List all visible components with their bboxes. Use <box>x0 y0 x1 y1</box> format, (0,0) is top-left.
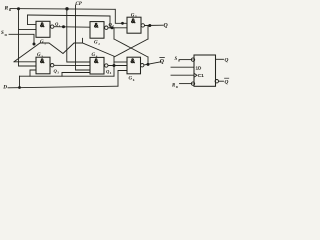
wire lower rail drop at x21 <box>19 76 21 87</box>
node RD-CP-column junction <box>65 7 68 10</box>
pin SD wire <box>180 59 193 61</box>
label G4 <box>92 53 98 58</box>
svg-text:C1: C1 <box>198 73 204 78</box>
wire D bottom rail <box>8 86 118 88</box>
wire RD top rail <box>10 8 115 11</box>
gate G1 AND mark <box>40 23 45 29</box>
gate G5 box <box>127 17 141 33</box>
wire cross vertical left lower with G6 input stub <box>113 57 115 76</box>
svg-text:R: R <box>4 6 9 12</box>
wire feedback rail y15 <box>28 15 111 16</box>
node on G1 output wire <box>62 25 65 28</box>
pin SD: label <box>175 57 182 62</box>
pin Qbar bubble <box>215 80 218 83</box>
wire CP vertical down to gate G4 input c <box>76 5 91 70</box>
gate G3 box <box>36 57 50 74</box>
gate G2 output bubble <box>105 26 108 29</box>
node on bottom D wire <box>18 86 21 89</box>
gate G5 AND mark <box>131 19 136 25</box>
wire y15 rail corner down joining G2 output wire <box>109 16 111 28</box>
label Q1 <box>55 22 61 28</box>
label CP <box>76 2 83 7</box>
pin RD bubble <box>191 82 194 85</box>
wire D rail up to G6 input c <box>118 71 127 87</box>
wire cross vertical right lower <box>147 57 149 65</box>
node Qbar junction <box>147 63 150 66</box>
svg-text:&: & <box>131 59 136 65</box>
gate G4 AND mark <box>94 59 99 65</box>
wire G4 stub vertical <box>61 73 63 77</box>
pin Qbar wire <box>219 80 224 82</box>
pin Q wire <box>216 58 224 60</box>
node G2 out junction <box>111 26 114 29</box>
wire V1 vertical from RD down to gate G3 input <box>19 9 37 66</box>
wire G1 output to G2 input <box>54 26 90 29</box>
wire G3 output to G4 input <box>54 64 90 66</box>
wire cross vertical right upper <box>147 26 149 40</box>
label G3 <box>37 53 43 58</box>
pin RD label <box>172 84 179 89</box>
node Q junction <box>148 24 151 27</box>
svg-text:Q: Q <box>225 58 229 64</box>
wire G6 input stub y62 <box>114 61 127 63</box>
svg-text:Q: Q <box>225 80 229 86</box>
gate G3 output bubble <box>51 63 54 66</box>
gate G3 AND mark <box>40 59 45 65</box>
svg-text:&: & <box>40 23 45 29</box>
label G2 <box>94 41 100 46</box>
label Q2 <box>109 22 115 28</box>
node blob on G5 input <box>121 22 124 25</box>
pin Qbar label <box>225 78 229 85</box>
pin C1 dynamic triangle <box>194 73 197 77</box>
wire G4 input d stub <box>62 72 90 74</box>
label D input <box>2 85 7 91</box>
wire corner down to gate G1 input a <box>28 15 37 25</box>
label G6 <box>129 77 135 82</box>
wire branch V1 to gate G1 input b <box>19 29 36 31</box>
wire G3 input c from lower rail <box>30 70 36 76</box>
wire G5 output to Q <box>145 24 164 26</box>
pin SD bubble <box>191 58 194 61</box>
pin RD wire <box>180 83 193 85</box>
wire G4 output to G6 input <box>108 65 127 67</box>
gate G1 output bubble <box>51 25 54 28</box>
wire A2 bottom stub <box>82 38 84 43</box>
zigzag feedback wire B2out to B1in <box>14 43 114 62</box>
pin 1D wire <box>171 66 194 68</box>
wire G2 output to G5 input b <box>108 27 127 29</box>
gate G4 output bubble <box>105 64 108 67</box>
gate G2 box <box>90 22 104 39</box>
gate G2 AND mark <box>94 23 99 29</box>
svg-text:CP: CP <box>76 2 83 7</box>
pin C1 label <box>198 73 204 78</box>
svg-text:&: & <box>40 59 45 65</box>
svg-text:1D: 1D <box>196 65 203 70</box>
gate G5 output bubble <box>141 24 144 27</box>
wire RD rail corner down to gate G5 input a <box>115 9 127 23</box>
wire G6 output to Qbar <box>144 62 161 65</box>
gate G6 AND mark <box>131 59 136 65</box>
label Q output <box>164 23 169 29</box>
gate G4 box <box>90 57 104 74</box>
node G4 out cross junction <box>113 64 116 67</box>
gate G1 box <box>36 21 50 37</box>
label G5 <box>131 13 137 18</box>
pin C1 wire <box>171 74 194 76</box>
wire cross vertical left upper <box>113 28 115 39</box>
label Qbar output <box>160 58 165 66</box>
gate G6 box <box>127 57 141 74</box>
wire B1 input a <box>14 61 36 63</box>
wire SD input <box>9 34 34 45</box>
label Q4 <box>106 69 112 75</box>
wire cross diagonal B <box>114 39 148 57</box>
svg-text:&: & <box>131 19 136 25</box>
label G1 <box>40 40 46 45</box>
wire lower rail y76 <box>20 75 115 77</box>
node RD-V1 junction <box>17 7 20 10</box>
wire cross diagonal A <box>114 39 148 57</box>
gate G6 output bubble <box>141 63 144 66</box>
pin Q label <box>225 58 229 64</box>
wire vertical x67 down to gate G4 input a <box>67 9 90 62</box>
IC symbol box <box>194 55 216 86</box>
label SD input <box>1 31 8 37</box>
label RD input <box>4 6 12 13</box>
label Q3 <box>54 69 60 75</box>
svg-text:&: & <box>94 59 99 65</box>
svg-text:&: & <box>94 23 99 29</box>
svg-text:D: D <box>2 85 7 91</box>
node SD wire joins feedback leg <box>33 43 36 46</box>
pin 1D label <box>196 65 203 70</box>
